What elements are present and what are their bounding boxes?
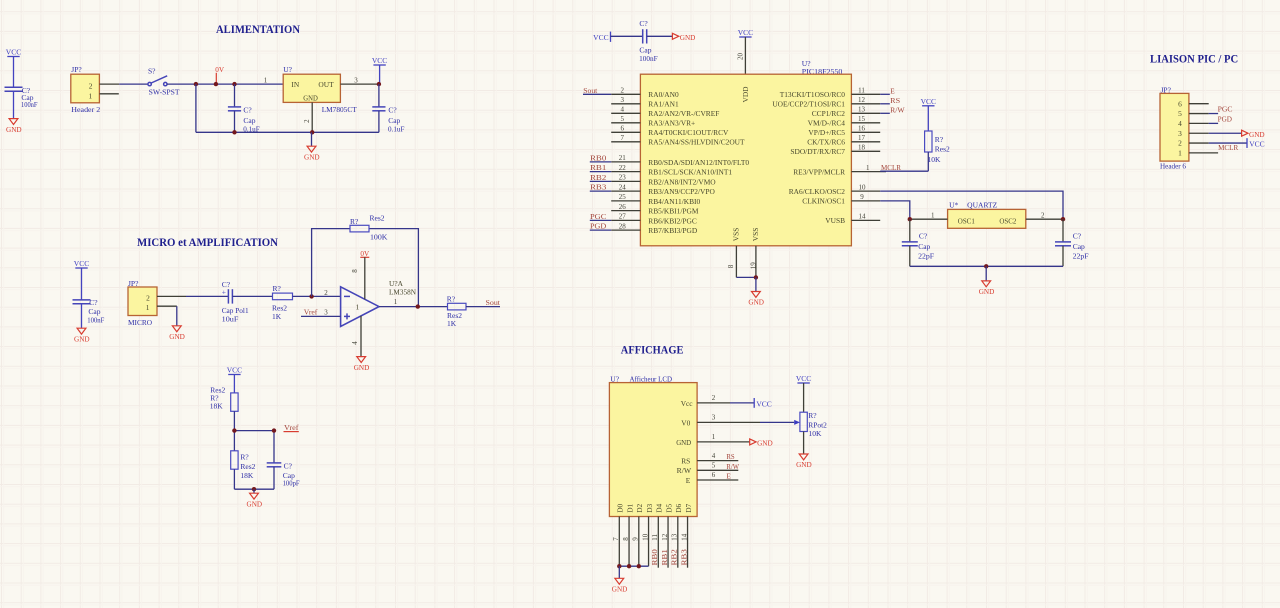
svg-text:RB2/AN8/INT2/VMO: RB2/AN8/INT2/VMO [648,177,716,186]
ground port GND at Header 6 [1242,130,1265,139]
wire coupling cap to resistor [232,295,272,297]
svg-text:VCC: VCC [738,28,753,37]
ground GND below op-amp [354,357,370,372]
net label RB3 at pin 24 [590,183,607,192]
svg-text:GND: GND [680,34,696,42]
svg-text:16: 16 [858,125,866,133]
svg-text:GND: GND [6,126,22,134]
svg-text:VCC: VCC [6,48,21,57]
svg-text:VCC: VCC [593,33,608,42]
pin 5 RA3/AN3/VR+ [611,115,695,128]
resistor R? Res2 1K (input) [272,284,293,321]
pin 21 RB0/SDA/SDI/AN12/INT0/FLT0 [611,154,749,167]
capacitor C? 22pF (OSC2) [1055,219,1089,266]
pin 23 RB2/AN8/INT2/VMO [611,174,716,187]
pin 14 D7 of LCD [680,503,692,567]
crystal U? QUARTZ [948,201,1026,229]
svg-text:15: 15 [858,115,866,123]
svg-text:VCC: VCC [372,56,387,65]
svg-text:4: 4 [621,106,625,114]
pin 12 UOE/CCP2/T1OSI/RC1 [772,96,880,109]
wire net RS stub at pin 12 [880,103,890,105]
capacitor C? 0.1uF (right of regulator) [372,84,404,133]
svg-text:RS: RS [890,96,900,105]
svg-text:OSC1: OSC1 [958,216,975,225]
svg-text:C?: C? [1073,232,1082,241]
connector JP? Header 2 [71,65,101,114]
svg-text:0.1uF: 0.1uF [388,125,404,134]
wire switch to regulator IN [167,83,283,85]
net label Sout at amplifier output [486,298,501,307]
svg-text:1: 1 [1178,149,1182,158]
junction VSS node [754,275,758,279]
net label PGC at pin 27 [590,212,606,221]
svg-text:22pF: 22pF [918,251,934,260]
pin 15 VM/D-/RC4 [808,115,881,128]
wire OSC2 to crystal [880,191,1063,219]
svg-text:18K: 18K [210,402,224,411]
svg-text:VSS: VSS [732,228,741,242]
svg-text:3: 3 [324,309,328,317]
junction at cap C? 0.1uF left [232,82,236,86]
pin 10 D3 of LCD [641,503,653,566]
svg-text:RB1: RB1 [590,163,607,172]
capacitor C? 100pF [267,461,300,489]
pin 3 line of regulator [340,76,379,84]
pin 3 RA1/AN1 [611,96,679,109]
svg-text:100nF: 100nF [639,54,658,63]
svg-text:11: 11 [858,87,865,95]
svg-text:AFFICHAGE: AFFICHAGE [621,342,684,356]
resistor R? Res2 100K (feedback) [350,213,388,241]
svg-text:C?: C? [243,105,252,114]
svg-text:VCC: VCC [756,399,771,408]
svg-text:Vref: Vref [284,423,299,432]
svg-text:22: 22 [619,164,627,172]
net label RB0 at pin 21 [590,153,607,162]
svg-text:D7: D7 [684,503,693,512]
svg-text:1K: 1K [272,312,282,321]
svg-text:E: E [686,476,691,485]
op-amp U?A LM358N [341,279,417,326]
svg-text:RA1/AN1: RA1/AN1 [648,100,679,109]
svg-text:1: 1 [356,302,360,311]
svg-text:RA2/AN2/VR-/CVREF: RA2/AN2/VR-/CVREF [648,109,719,118]
net label PGD at Header 6 [1218,114,1233,123]
wire net Sout at pin 2 [583,93,611,95]
svg-text:2: 2 [1041,211,1045,219]
svg-text:0V: 0V [215,66,225,74]
wire VSS tie [736,276,756,278]
pin 18 SDO/DT/RX/RC7 [790,144,880,157]
svg-text:24: 24 [619,183,627,191]
svg-text:14: 14 [680,533,688,541]
svg-text:20: 20 [737,53,745,61]
junction regulator GND at rail [310,130,314,134]
net label R/W at LCD [726,462,739,471]
net label E at pin 11 [890,87,895,96]
svg-text:GND: GND [169,333,185,341]
pin 11 T13CKI/T1OSO/RC0 [780,87,880,100]
svg-text:2: 2 [324,289,328,297]
svg-text:5: 5 [621,115,625,123]
svg-text:3: 3 [354,76,358,84]
svg-text:RA3/AN3/VR+: RA3/AN3/VR+ [648,119,695,128]
svg-text:SDO/DT/RX/RC7: SDO/DT/RX/RC7 [790,147,845,156]
svg-text:GND: GND [304,153,320,161]
ground GND (divider) [247,489,263,508]
pin 2 line of regulator (GND) [303,102,312,132]
net label MCLR at pin 1 [881,163,901,172]
svg-text:11: 11 [651,534,659,541]
svg-text:GND: GND [612,586,628,594]
net label RS at pin 12 [890,96,900,105]
pin 20 VDD line [737,37,746,74]
junction divider tap [232,428,236,432]
svg-text:RA5/AN4/SS/HLVDIN/C2OUT: RA5/AN4/SS/HLVDIN/C2OUT [648,138,745,147]
svg-text:R/W: R/W [890,106,905,115]
svg-text:Vcc: Vcc [681,399,694,408]
svg-text:RA4/T0CKI/C1OUT/RCV: RA4/T0CKI/C1OUT/RCV [648,128,729,137]
wire crystal pin 1 [910,211,948,219]
wire net E stub at pin 11 [880,93,890,95]
svg-text:1: 1 [712,433,716,441]
ground GND below LCD [612,566,628,593]
svg-text:GND: GND [796,461,812,469]
pin 8 line of op-amp [351,257,365,299]
connector JP? MICRO [128,279,157,327]
svg-text:GND: GND [1249,131,1265,139]
svg-text:18: 18 [858,144,866,152]
pin 16 VP/D+/RC5 [808,125,880,138]
svg-text:Cap: Cap [1073,242,1085,251]
junction D1 ground [627,564,631,568]
capacitor C? 22pF (OSC1) [902,219,934,266]
svg-text:Header 6: Header 6 [1160,161,1186,170]
power VCC above potentiometer [796,374,811,412]
svg-text:CLKIN/OSC1: CLKIN/OSC1 [802,197,845,206]
svg-text:14: 14 [859,213,867,221]
ground GND below PIC [748,277,764,306]
svg-text:2: 2 [1178,139,1182,148]
junction cap 0.1uF left at bottom rail [232,130,236,134]
resistor R? Res2 18K (lower) [231,451,256,480]
pin 4 RS of LCD [681,452,738,466]
net label PGC at Header 6 [1218,105,1233,114]
svg-text:Header 2: Header 2 [71,105,100,114]
svg-text:GND: GND [979,288,995,296]
svg-text:Res2: Res2 [935,145,950,154]
pin 2 Vcc of LCD [681,394,755,408]
power VCC (micro bias) [74,259,89,300]
svg-text:28: 28 [619,222,627,230]
svg-text:PGC: PGC [1218,105,1233,114]
svg-text:RB2: RB2 [670,549,679,566]
svg-text:V0: V0 [681,418,690,427]
svg-text:OUT: OUT [318,80,334,89]
pin number 1 of regulator [264,76,268,84]
svg-text:7: 7 [621,134,625,142]
svg-text:10K: 10K [809,429,823,438]
pin 28 RB7/KBI3/PGD [611,222,698,235]
svg-text:D2: D2 [635,503,644,512]
svg-text:VP/D+/RC5: VP/D+/RC5 [808,128,845,137]
ground GND (micro cap) [74,328,90,343]
svg-text:D6: D6 [674,503,683,512]
svg-text:PGC: PGC [590,212,606,221]
svg-text:4: 4 [351,341,359,345]
pin 1 line of Header 6 [1189,152,1218,154]
svg-text:R?: R? [935,135,944,144]
svg-text:VSS: VSS [751,228,760,242]
pin 11 D4 of LCD [651,503,663,567]
junction D2 ground [637,564,641,568]
svg-text:2: 2 [621,87,625,95]
wire crystal ground rail [910,265,1063,267]
power VCC (divider) [227,366,242,393]
power VCC at regulator output [372,56,387,84]
svg-text:VCC: VCC [227,366,242,375]
svg-text:5: 5 [712,462,716,470]
capacitor C? 100nF (micro) [73,298,105,328]
svg-text:6: 6 [621,125,625,133]
svg-text:RB5/KBI1/PGM: RB5/KBI1/PGM [648,207,699,216]
svg-text:+: + [222,288,226,297]
svg-text:1K: 1K [447,319,457,328]
pin 8 D1 of LCD [622,503,634,566]
svg-text:13: 13 [671,533,679,541]
pin 19 VSS line [749,246,757,278]
junction OSC2 node [1061,217,1065,221]
net label RB1 at pin 22 [590,163,607,172]
wire divider ground rail [234,469,274,489]
svg-text:LM7805CT: LM7805CT [322,105,357,114]
pin 13 CCP1/RC2 [812,106,880,119]
ground GND (micro pin1) [169,326,185,341]
pin 5 R/W of LCD [677,462,739,476]
svg-text:CK/TX/RC6: CK/TX/RC6 [807,138,845,147]
svg-text:D4: D4 [655,503,664,512]
resistor R? Res2 1K (output) [447,294,466,328]
power VCC (input filter) [6,48,21,88]
svg-text:Cap: Cap [88,307,100,316]
wire bottom rail of power section [196,131,379,133]
svg-text:Sout: Sout [583,86,598,95]
svg-text:T13CKI/T1OSO/RC0: T13CKI/T1OSO/RC0 [780,90,846,99]
connector JP? Header 6 [1160,85,1189,170]
svg-text:27: 27 [619,213,627,221]
pin 25 RB4/AN11/KBI0 [611,193,700,206]
pin 5 line of Header 6 [1189,113,1218,115]
pin 8 VSS line [727,246,737,278]
pin 3 V0 of LCD [681,414,794,428]
svg-text:VCC: VCC [796,374,811,383]
svg-text:RB3: RB3 [590,183,607,192]
wire crystal pin 2 [1026,211,1063,219]
svg-text:RB6/KBI2/PGC: RB6/KBI2/PGC [648,216,697,225]
svg-text:C?: C? [388,105,397,114]
wire resistor to op-amp inverting input [293,289,341,297]
svg-text:13: 13 [858,106,866,114]
svg-text:S?: S? [148,67,156,76]
wire net RB3 at pin 24 [590,190,611,192]
svg-text:VCC: VCC [74,259,89,268]
pin 6 RA4/T0CKI/C1OUT/RCV [611,125,729,138]
capacitor C? Cap Pol1 10uF [222,280,249,324]
svg-text:E: E [890,87,895,96]
svg-text:C?: C? [639,19,648,28]
svg-text:CCP1/RC2: CCP1/RC2 [812,109,846,118]
svg-text:1: 1 [88,91,92,100]
wire divider middle [234,411,274,463]
svg-text:QUARTZ: QUARTZ [967,201,997,210]
ground GND (input filter) [6,119,22,134]
pin 3 line of Header 6 [1189,132,1242,134]
svg-text:10: 10 [641,533,649,541]
svg-text:IN: IN [291,80,299,89]
power port 0V [214,66,225,86]
net label RS at LCD [726,452,734,461]
svg-text:4: 4 [1178,119,1182,128]
wire LCD data ground rail [619,565,648,567]
net label E at LCD [726,472,731,481]
wire Vref to non-inverting input [301,309,341,317]
net label RB2 at LCD data pin [670,549,679,566]
pin 13 D6 of LCD [671,503,683,567]
net label PGD at pin 28 [590,222,607,231]
net label RB3 at LCD data pin [679,549,688,566]
resistor R? Res2 10K pullup [925,131,950,171]
wire net RB2 at pin 23 [590,180,611,182]
wire op-amp output [379,298,448,307]
svg-text:GND: GND [74,335,90,343]
svg-text:26: 26 [619,203,627,211]
pin 24 RB3/AN9/CCP2/VPO [611,183,715,196]
power VCC above pullup resistor [921,97,936,131]
net label Sout at pin 2 [583,86,598,95]
pin 1 stub of JP? [99,93,118,95]
svg-text:RA6/CLKO/OSC2: RA6/CLKO/OSC2 [789,187,846,196]
svg-text:RB3: RB3 [679,549,688,566]
svg-text:2: 2 [712,394,716,402]
svg-text:VDD: VDD [741,86,750,103]
svg-text:7: 7 [612,537,620,541]
wire net RB1 at pin 22 [590,171,611,173]
svg-text:2: 2 [89,81,93,90]
junction at switch output branch [194,82,198,86]
svg-text:RA0/AN0: RA0/AN0 [648,90,679,99]
svg-text:U?: U? [283,65,292,74]
svg-text:100nF: 100nF [87,316,104,325]
pin 2 line of MICRO [157,295,186,297]
svg-text:8: 8 [351,269,359,273]
svg-text:3: 3 [621,96,625,104]
pin 10 RA6/CLKO/OSC2 [789,183,880,196]
power port VCC at LCD [754,398,772,408]
svg-text:PGD: PGD [590,222,607,231]
junction inverting input node [309,294,313,298]
pin 2 line of JP? [99,83,119,85]
svg-text:2: 2 [146,293,150,302]
svg-text:12: 12 [858,96,866,104]
svg-text:R/W: R/W [726,462,739,471]
wire net MCLR to pullup [880,170,928,172]
resistor R? Res2 18K (upper) [210,386,238,412]
svg-text:Vref: Vref [304,308,318,317]
svg-text:R?: R? [808,411,817,420]
svg-text:MICRO: MICRO [128,318,153,327]
pin 2 line of Header 6 [1189,142,1247,144]
wire MICRO pin1 to ground [176,306,178,326]
junction OSC1 node [908,217,912,221]
svg-text:5: 5 [1178,109,1182,118]
pin 17 CK/TX/RC6 [807,134,880,147]
capacitor C? 100nF (decoupling) [639,19,658,63]
svg-text:VUSB: VUSB [825,216,845,225]
svg-text:RB1/SCL/SCK/AN10/INT1: RB1/SCL/SCK/AN10/INT1 [648,168,732,177]
svg-text:Cap: Cap [918,242,930,251]
ground GND below crystal [979,266,995,296]
ground GND below potentiometer [796,454,812,469]
svg-text:VM/D-/RC4: VM/D-/RC4 [808,119,846,128]
junction D0 ground [617,564,621,568]
svg-text:8: 8 [727,264,735,268]
junction regulator output [377,82,381,86]
wire left branch down [195,84,197,132]
svg-text:RB2: RB2 [590,173,607,182]
net label MCLR at Header 6 [1218,143,1238,152]
svg-text:E: E [726,472,731,481]
svg-text:U*: U* [949,201,958,210]
pin 4 line of op-amp [351,316,361,357]
ground port GND at LCD [750,439,773,448]
wire output resistor to Sout [466,306,500,308]
svg-text:12: 12 [661,533,669,541]
net label RB2 at pin 23 [590,173,607,182]
pin 27 RB6/KBI2/PGC [611,213,697,226]
svg-text:GND: GND [676,438,692,447]
svg-text:VCC: VCC [1249,139,1264,148]
net label Vref at divider [284,423,300,432]
net label R/W at pin 13 [890,106,905,115]
svg-text:MCLR: MCLR [1218,143,1238,152]
svg-text:GND: GND [757,440,773,448]
net label RB1 at LCD data pin [660,549,669,566]
svg-text:RB4/AN11/KBI0: RB4/AN11/KBI0 [648,197,700,206]
svg-text:C?: C? [284,461,293,470]
pin 14 VUSB [825,213,880,226]
svg-text:RS: RS [681,457,690,466]
pin 22 RB1/SCL/SCK/AN10/INT1 [611,164,732,177]
svg-text:RB1: RB1 [660,549,669,566]
potentiometer R? RPot2 10K [794,411,827,454]
svg-text:R?: R? [273,284,282,293]
power port VCC at Header 6 [1247,138,1265,148]
svg-text:RE3/VPP/MCLR: RE3/VPP/MCLR [793,168,845,177]
ground port GND (decoupling net) [672,33,695,42]
svg-text:10uF: 10uF [222,315,239,324]
junction divider ground [252,487,256,491]
wire MICRO to coupling cap [186,295,228,297]
svg-text:9: 9 [632,537,640,541]
svg-text:MCLR: MCLR [881,163,901,172]
svg-text:1: 1 [394,298,398,306]
pin 6 line of Header 6 [1189,103,1209,105]
svg-text:RS: RS [726,452,734,461]
junction crystal ground rail [984,264,988,268]
wire OSC1 to crystal [880,201,910,219]
junction Vref cap branch [272,428,276,432]
